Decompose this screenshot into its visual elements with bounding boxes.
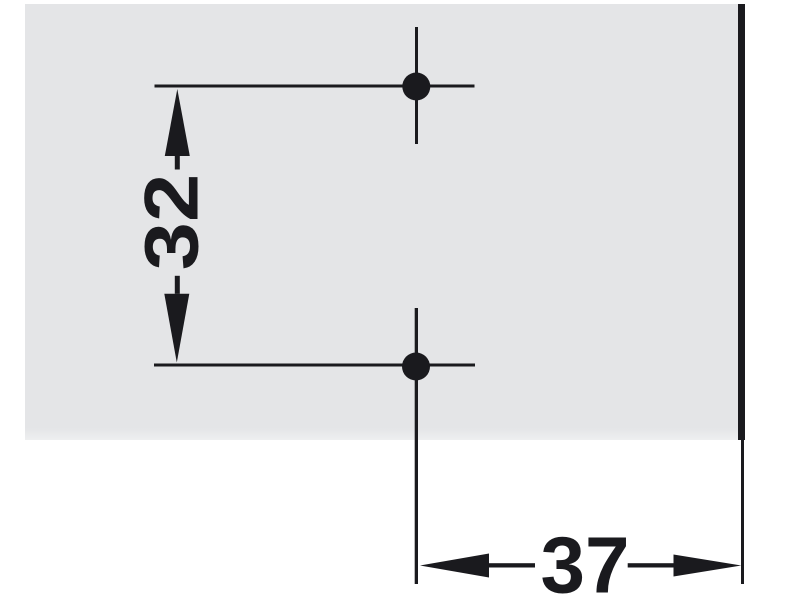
svg-text:37: 37 (541, 521, 630, 600)
svg-text:32: 32 (129, 174, 214, 271)
